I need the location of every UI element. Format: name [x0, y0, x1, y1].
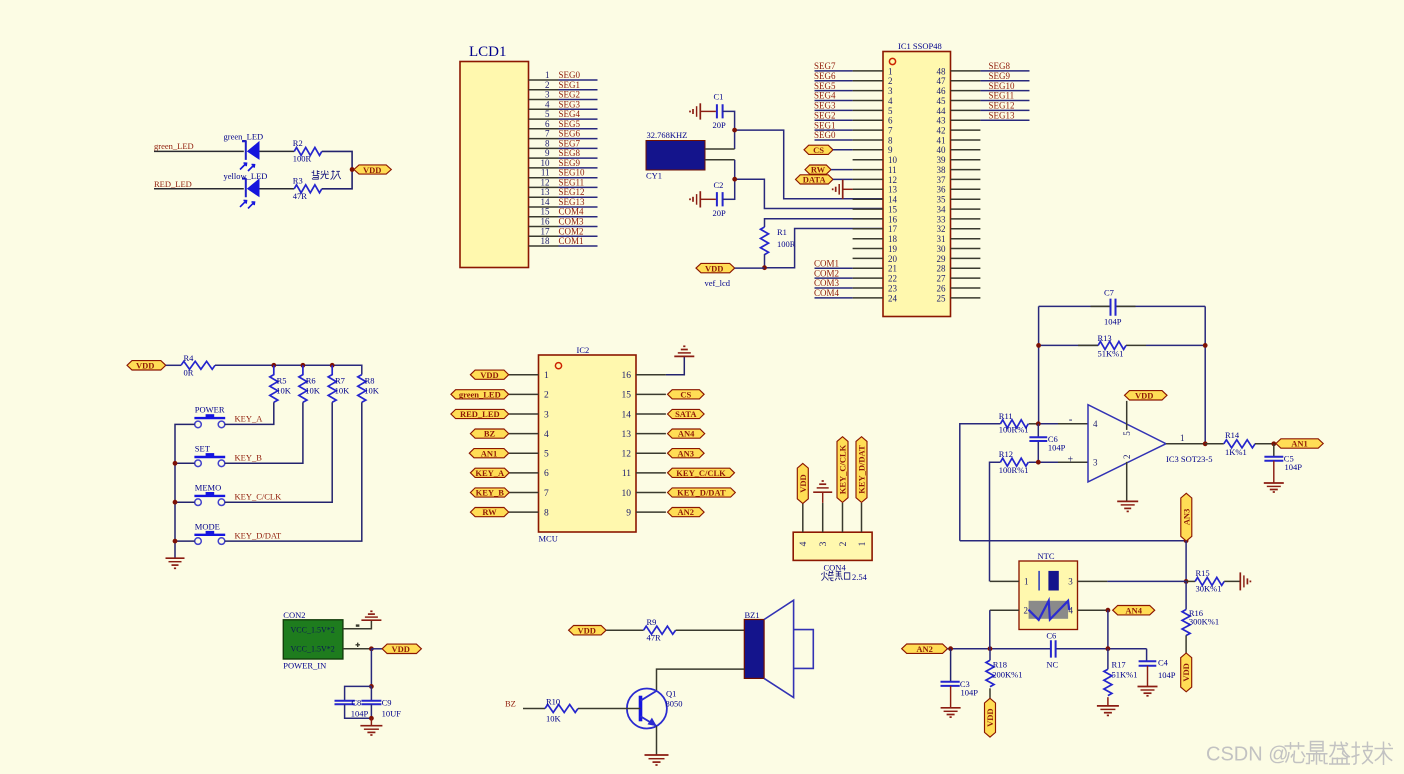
- svg-text:3: 3: [1068, 577, 1073, 587]
- wire R2 to VDD node: [322, 151, 352, 169]
- junction dots feedback: [1036, 343, 1041, 348]
- wire green_LED row: [154, 150, 244, 152]
- resistor R14 1K%1: [1205, 430, 1274, 457]
- ground R15 (rotated right): [1240, 572, 1250, 590]
- resistor R15 30K%1: [1186, 568, 1240, 594]
- svg-text:2: 2: [888, 76, 893, 86]
- net flag AN2: [902, 644, 948, 654]
- svg-text:104P: 104P: [351, 709, 369, 719]
- junction dot backlight VDD: [350, 167, 355, 172]
- svg-text:6: 6: [544, 469, 549, 479]
- resistor R2: [293, 138, 322, 164]
- wire C2 to node: [723, 198, 735, 200]
- svg-text:10K: 10K: [335, 386, 351, 396]
- svg-text:2: 2: [839, 541, 849, 546]
- svg-text:5: 5: [545, 109, 550, 119]
- IC1 COM1-COM4 net wires: [815, 268, 853, 298]
- ground C4: [1138, 666, 1158, 696]
- resistor R1 100R: [761, 227, 796, 255]
- net flag KEY_C/CLK at IC2: [668, 468, 735, 478]
- svg-text:AN4: AN4: [678, 429, 695, 439]
- svg-text:10: 10: [622, 489, 632, 499]
- svg-text:SEG0: SEG0: [559, 70, 581, 80]
- wire R9 to BZ1: [676, 629, 745, 631]
- wire NTC pin2 down to bus: [989, 610, 991, 649]
- svg-text:CS: CS: [680, 389, 691, 399]
- svg-text:15: 15: [622, 391, 632, 401]
- svg-text:4: 4: [1093, 419, 1098, 429]
- svg-text:13: 13: [888, 185, 898, 195]
- wire IC1 pin16 to R1: [765, 219, 884, 227]
- svg-text:CSDN @: CSDN @: [1206, 744, 1289, 766]
- svg-text:AN2: AN2: [916, 644, 933, 654]
- svg-text:1: 1: [545, 70, 550, 80]
- svg-text:BZ: BZ: [505, 699, 516, 709]
- svg-text:R11: R11: [999, 411, 1013, 421]
- wire RED_LED row: [154, 188, 244, 190]
- svg-text:VDD: VDD: [136, 361, 154, 371]
- svg-text:5: 5: [544, 450, 549, 460]
- svg-text:R1: R1: [777, 227, 787, 237]
- capacitor C5 104P: [1264, 444, 1302, 472]
- svg-text:SEG11: SEG11: [559, 177, 585, 187]
- svg-text:8: 8: [544, 508, 549, 518]
- svg-text:R18: R18: [993, 659, 1007, 669]
- svg-text:VCC_1.5V*2: VCC_1.5V*2: [291, 645, 335, 654]
- svg-text:39: 39: [937, 155, 947, 165]
- svg-text:2: 2: [544, 391, 549, 401]
- svg-text:3: 3: [1093, 458, 1098, 468]
- net flag KEY_D/DAT CON4 (vertical): [856, 437, 867, 503]
- power flag VDD below R16 (vertical): [1181, 653, 1192, 692]
- wire R1 to vef_lcd node: [764, 254, 766, 268]
- svg-text:green_LED: green_LED: [154, 141, 194, 151]
- label 背光灯 backlight: [312, 170, 341, 179]
- svg-text:7: 7: [545, 129, 550, 139]
- svg-text:16: 16: [888, 214, 898, 224]
- svg-text:32: 32: [937, 224, 946, 234]
- svg-text:200K%1: 200K%1: [992, 669, 1022, 679]
- svg-text:1: 1: [1180, 433, 1185, 443]
- svg-text:SEG13: SEG13: [559, 197, 586, 207]
- svg-text:KEY_B: KEY_B: [235, 453, 263, 463]
- svg-text:COM1: COM1: [559, 236, 584, 246]
- NTC pin stubs: [990, 581, 1108, 610]
- wire C2 node to IC1 pin15: [735, 179, 883, 208]
- svg-text:11: 11: [541, 168, 550, 178]
- svg-text:C9: C9: [382, 697, 392, 707]
- junction dots pullup bus: [271, 363, 276, 368]
- junction dot cap bottom: [369, 716, 374, 721]
- svg-text:1: 1: [1024, 577, 1029, 587]
- CON4 pin stubs: [803, 503, 862, 532]
- wire R3 to VDD node: [322, 170, 352, 189]
- svg-text:9: 9: [888, 145, 893, 155]
- opamp output pin1 wire: [1166, 443, 1205, 445]
- opamp pin2 stub: [1126, 462, 1128, 501]
- svg-text:31: 31: [937, 234, 946, 244]
- power flag VDD below R18 (vertical): [985, 698, 996, 737]
- svg-text:SEG1: SEG1: [559, 80, 581, 90]
- junction dot vef_lcd: [762, 265, 767, 270]
- net flag RW at IC2: [470, 507, 508, 517]
- ground C5: [1264, 461, 1284, 492]
- svg-text:R7: R7: [335, 376, 345, 386]
- svg-text:NC: NC: [1046, 659, 1058, 669]
- svg-text:R3: R3: [293, 176, 303, 186]
- svg-text:37: 37: [937, 175, 947, 185]
- svg-text:KEY_B: KEY_B: [476, 488, 505, 498]
- junction dot AN1 node: [1271, 441, 1276, 446]
- svg-text:44: 44: [937, 106, 947, 116]
- svg-text:R14: R14: [1225, 430, 1240, 440]
- svg-text:8: 8: [888, 135, 893, 145]
- svg-text:30: 30: [937, 244, 947, 254]
- svg-text:KEY_D/DAT: KEY_D/DAT: [677, 488, 726, 498]
- LCD1 pin numbers: [541, 70, 551, 246]
- svg-text:47R: 47R: [647, 633, 662, 643]
- net flag KEY_D/DAT at IC2: [668, 488, 736, 498]
- svg-text:IC1 SSOP48: IC1 SSOP48: [898, 41, 942, 51]
- svg-text:C6: C6: [1046, 630, 1056, 640]
- IC2 right pin numbers: [622, 371, 632, 518]
- svg-text:47R: 47R: [293, 191, 308, 201]
- svg-text:41: 41: [937, 135, 946, 145]
- svg-text:8050: 8050: [666, 699, 683, 709]
- junction dots keys common: [173, 461, 178, 466]
- wire Q1 emitter down: [656, 726, 658, 755]
- resistor R6 10K: [299, 365, 321, 402]
- resistor R5 10K: [270, 365, 292, 402]
- svg-text:100R: 100R: [777, 239, 796, 249]
- svg-text:NTC: NTC: [1038, 551, 1055, 561]
- connector CON2 POWER_IN body: [283, 610, 343, 670]
- svg-text:C1: C1: [714, 92, 724, 102]
- connector LCD1 body: [460, 44, 529, 268]
- svg-text:SEG6: SEG6: [559, 129, 581, 139]
- svg-text:yellow_LED: yellow_LED: [224, 171, 268, 181]
- wire node to IC1 pin17: [765, 229, 884, 268]
- capacitor C7 104P: [1104, 288, 1122, 327]
- svg-text:R5: R5: [277, 376, 287, 386]
- svg-text:IC3 SOT23-5: IC3 SOT23-5: [1166, 454, 1213, 464]
- svg-text:16: 16: [541, 217, 551, 227]
- wire VDD to R4: [166, 364, 181, 366]
- svg-text:51K%1: 51K%1: [1098, 349, 1124, 359]
- svg-text:SEG3: SEG3: [559, 99, 581, 109]
- svg-text:1: 1: [858, 541, 868, 546]
- IC1 pin1 indicator circle: [889, 58, 895, 64]
- net flag RED_LED at IC2: [451, 409, 509, 419]
- svg-text:SEG10: SEG10: [559, 168, 586, 178]
- net flag AN2 at IC2: [668, 507, 705, 517]
- svg-text:VDD: VDD: [798, 474, 808, 492]
- connector CON4 body: [793, 532, 872, 572]
- svg-text:SEG4: SEG4: [559, 109, 581, 119]
- svg-text:17: 17: [541, 226, 551, 236]
- wire pullup bus: [215, 365, 362, 374]
- watermark 术: [1375, 742, 1394, 766]
- svg-text:DATA: DATA: [803, 175, 827, 185]
- svg-text:COM3: COM3: [814, 278, 840, 288]
- svg-text:MCU: MCU: [539, 534, 558, 544]
- svg-text:11: 11: [888, 165, 897, 175]
- svg-text:42: 42: [937, 126, 946, 136]
- svg-text:SEG9: SEG9: [559, 158, 581, 168]
- svg-text:RED_LED: RED_LED: [154, 179, 192, 189]
- svg-text:RW: RW: [482, 507, 497, 517]
- wire VDD node down: [370, 649, 372, 687]
- svg-text:KEY_D/DAT: KEY_D/DAT: [235, 530, 283, 540]
- svg-text:C8: C8: [351, 697, 361, 707]
- net flag green_LED at IC2: [451, 389, 509, 399]
- junction dots AN2 bus: [948, 646, 953, 651]
- svg-text:13: 13: [541, 187, 551, 197]
- svg-text:15: 15: [888, 205, 898, 215]
- svg-text:104P: 104P: [961, 687, 979, 697]
- svg-text:27: 27: [937, 274, 947, 284]
- svg-text:3: 3: [888, 86, 893, 96]
- svg-text:VDD: VDD: [392, 644, 410, 654]
- svg-text:20: 20: [888, 254, 898, 264]
- svg-text:IC2: IC2: [577, 345, 590, 355]
- svg-text:Q1: Q1: [666, 689, 676, 699]
- IC1 left pin stubs: [853, 71, 883, 298]
- IC U IC1 SSOP48 body: [883, 41, 951, 317]
- svg-text:43: 43: [937, 116, 947, 126]
- IC1 right SEG8-SEG13 net wires: [980, 71, 1029, 120]
- svg-text:11: 11: [622, 469, 631, 479]
- svg-text:COM4: COM4: [814, 288, 840, 298]
- svg-text:12: 12: [541, 177, 550, 187]
- transistor Q1 8050: [627, 689, 683, 729]
- svg-text:R12: R12: [999, 449, 1013, 459]
- svg-text:10K: 10K: [364, 386, 380, 396]
- svg-text:CON4: CON4: [824, 563, 847, 573]
- svg-text:C4: C4: [1158, 657, 1169, 667]
- svg-text:14: 14: [888, 195, 898, 205]
- net flag AN3 (vertical): [1181, 493, 1192, 541]
- svg-text:10UF: 10UF: [382, 709, 402, 719]
- net flag CS at IC2: [668, 389, 705, 399]
- svg-text:36: 36: [937, 185, 947, 195]
- svg-text:9: 9: [626, 508, 631, 518]
- ground C3: [941, 686, 961, 717]
- svg-text:21: 21: [888, 264, 897, 274]
- power flag VDD buzzer: [569, 625, 607, 635]
- crystal pins: [705, 149, 735, 160]
- IC1 right pin stubs: [951, 71, 981, 298]
- junction dot R15 node: [1184, 579, 1189, 584]
- svg-text:48: 48: [937, 66, 947, 76]
- IC2 pin1 indicator circle: [555, 363, 561, 369]
- wire IC2 pin16 to ground: [666, 357, 684, 375]
- svg-text:SEG7: SEG7: [559, 138, 581, 148]
- svg-text:14: 14: [541, 197, 551, 207]
- svg-text:KEY_A: KEY_A: [475, 468, 505, 478]
- junction dot pin3 node: [1036, 460, 1041, 465]
- key switch MODE: [194, 521, 225, 544]
- power flag VDD keys: [127, 361, 166, 371]
- resistor R9 47R: [644, 617, 676, 643]
- svg-text:SET: SET: [195, 444, 211, 454]
- svg-text:LCD1: LCD1: [469, 44, 507, 60]
- svg-text:KEY_A: KEY_A: [235, 414, 264, 424]
- svg-text:VDD: VDD: [578, 625, 596, 635]
- svg-text:5: 5: [1122, 431, 1132, 436]
- LED D yellow_LED: [224, 171, 268, 208]
- svg-text:100R%1: 100R%1: [999, 465, 1029, 475]
- svg-text:SEG5: SEG5: [559, 119, 581, 129]
- IC1 COM net labels: [814, 259, 840, 299]
- svg-text:104P: 104P: [1104, 317, 1122, 327]
- svg-text:10: 10: [541, 158, 551, 168]
- ground CON2 pin1 (earth up): [361, 611, 381, 620]
- resistor R12 100R%1: [999, 449, 1029, 475]
- ground keys: [166, 558, 185, 568]
- svg-text:R6: R6: [306, 376, 316, 386]
- svg-text:4: 4: [1069, 606, 1074, 616]
- power flag VDD IC3: [1125, 391, 1168, 401]
- resistor R13 51K%1: [1039, 333, 1206, 359]
- IC1 right pin numbers 48-25: [937, 66, 947, 303]
- op-amp IC3 triangle: [1068, 405, 1213, 482]
- net flag KEY_C/CLK CON4 (vertical): [837, 437, 848, 503]
- ground CON2 caps: [360, 718, 382, 735]
- svg-text:10: 10: [888, 155, 898, 165]
- svg-text:2: 2: [545, 80, 550, 90]
- label 烧录口 2.54: [821, 571, 850, 581]
- wire AN2-side net from R12: [990, 462, 1001, 581]
- IC U IC2 MCU body: [539, 345, 637, 544]
- svg-text:4: 4: [545, 99, 550, 109]
- IC1 right SEG net labels: [989, 61, 1016, 120]
- IC2 left pin numbers: [544, 371, 549, 518]
- svg-text:R9: R9: [647, 617, 657, 627]
- svg-text:5: 5: [888, 106, 893, 116]
- svg-text:AN3: AN3: [678, 448, 695, 458]
- svg-text:SEG2: SEG2: [559, 90, 581, 100]
- svg-text:SEG5: SEG5: [814, 81, 836, 91]
- svg-text:35: 35: [937, 195, 947, 205]
- key switch POWER: [194, 405, 225, 428]
- svg-text:20P: 20P: [713, 120, 727, 130]
- resistor R8 10K: [358, 375, 380, 403]
- wire CS to pin9: [833, 149, 853, 151]
- svg-text:29: 29: [937, 254, 947, 264]
- ground Q1: [645, 755, 669, 765]
- svg-text:SEG0: SEG0: [814, 130, 836, 140]
- net flag KEY_B at IC2: [470, 488, 509, 498]
- svg-text:SEG7: SEG7: [814, 61, 836, 71]
- svg-text:R8: R8: [365, 376, 375, 386]
- capacitor C4 104P: [1139, 649, 1176, 680]
- svg-text:SEG1: SEG1: [814, 120, 836, 130]
- wire LED to R3: [260, 188, 295, 190]
- wire BZ1 bottom to Q1 collector: [657, 669, 745, 691]
- svg-text:28: 28: [937, 264, 947, 274]
- LCD1 net wires: [559, 80, 598, 246]
- IC1 left SEG net labels: [814, 61, 836, 140]
- buzzer BZ1: [744, 600, 813, 697]
- watermark 芯: [1285, 742, 1306, 763]
- junction dot AN3: [1184, 538, 1189, 543]
- svg-text:4: 4: [799, 541, 809, 546]
- wire node to IC1 pin14: [735, 130, 883, 199]
- svg-text:4: 4: [544, 430, 549, 440]
- resistor R4 0R: [181, 353, 215, 378]
- svg-text:R4: R4: [184, 353, 195, 363]
- svg-text:-: -: [1069, 414, 1073, 426]
- IC2 left pin stubs: [509, 375, 539, 512]
- resistor R10 10K: [545, 696, 578, 723]
- svg-text:20P: 20P: [713, 208, 727, 218]
- watermark 鼎: [1306, 742, 1328, 765]
- svg-text:C7: C7: [1104, 288, 1114, 298]
- wire LED to R2: [260, 150, 295, 152]
- svg-text:AN1: AN1: [481, 448, 498, 458]
- junction dot output/feedback: [1203, 441, 1208, 446]
- junction dot AN4: [1106, 608, 1111, 613]
- IC2 right pin stubs: [636, 375, 666, 512]
- wire R12 to opamp pin3: [1029, 461, 1058, 463]
- LCD1 net names SEG0-COM1: [559, 70, 586, 246]
- svg-text:300K%1: 300K%1: [1189, 617, 1219, 627]
- resistor R3: [293, 176, 322, 202]
- svg-text:10K: 10K: [276, 386, 292, 396]
- power flag VDD backlight: [354, 165, 391, 175]
- svg-text:18: 18: [541, 236, 551, 246]
- svg-text:CY1: CY1: [646, 171, 662, 181]
- svg-text:AN2: AN2: [678, 507, 695, 517]
- svg-text:VCC_1.5V*2: VCC_1.5V*2: [291, 626, 335, 635]
- svg-text:C2: C2: [714, 180, 724, 190]
- svg-text:104P: 104P: [1285, 462, 1303, 472]
- svg-text:12: 12: [888, 175, 897, 185]
- svg-text:COM2: COM2: [814, 268, 839, 278]
- svg-text:SEG8: SEG8: [559, 148, 581, 158]
- svg-text:0R: 0R: [184, 368, 194, 378]
- opamp pin5 stub: [1126, 401, 1128, 430]
- svg-text:3: 3: [819, 541, 829, 546]
- net flag AN1 at IC2: [469, 448, 508, 458]
- IC1 left pin numbers 1-24: [888, 66, 898, 303]
- wire AN3 net vertical from R11: [1029, 423, 1039, 425]
- wire AN4 node down to bus: [1107, 610, 1109, 649]
- net flag AN1: [1276, 439, 1323, 449]
- svg-text:3: 3: [544, 410, 549, 420]
- svg-text:COM4: COM4: [559, 207, 585, 217]
- svg-text:SEG9: SEG9: [989, 71, 1011, 81]
- svg-text:SEG8: SEG8: [989, 61, 1011, 71]
- svg-text:100R%1: 100R%1: [999, 425, 1029, 435]
- svg-text:22: 22: [888, 274, 897, 284]
- svg-text:COM3: COM3: [559, 217, 585, 227]
- CON2 pin1 stub: [343, 620, 372, 629]
- resistor R11 100R%1: [999, 411, 1029, 435]
- crystal CY1 32.768KHZ: [646, 130, 705, 181]
- junction dot cap top: [369, 684, 374, 689]
- wire NTC pin3 to R15 node: [1107, 580, 1186, 582]
- svg-text:VDD: VDD: [363, 165, 381, 175]
- svg-text:BZ: BZ: [484, 429, 496, 439]
- watermark 盛: [1329, 742, 1350, 765]
- svg-text:AN1: AN1: [1291, 439, 1308, 449]
- wire C1 to node: [723, 111, 735, 149]
- ground at IC1 pin13 (rotated left): [833, 180, 853, 199]
- svg-text:40: 40: [937, 145, 947, 155]
- net flag RW: [805, 165, 831, 175]
